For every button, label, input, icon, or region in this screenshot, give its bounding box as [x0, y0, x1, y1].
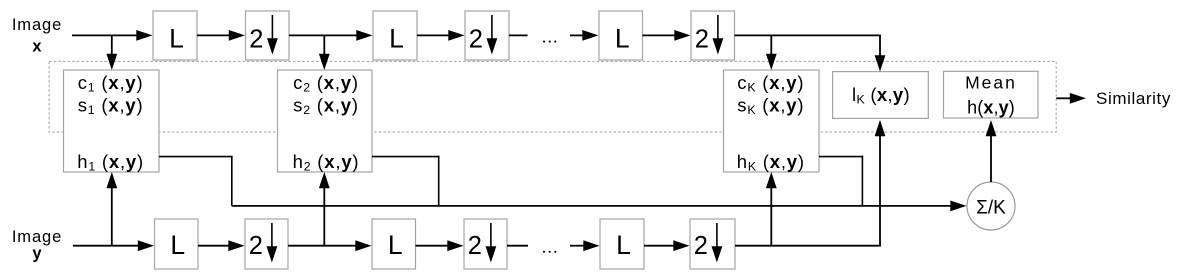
svg-text:sK (x,y): sK (x,y): [737, 95, 804, 118]
svg-text:h2 (x,y): h2 (x,y): [293, 151, 360, 174]
svg-text:x: x: [32, 38, 42, 56]
svg-text:L: L: [169, 24, 184, 54]
svg-text:Mean: Mean: [965, 73, 1017, 93]
svg-text:Σ/K: Σ/K: [976, 197, 1006, 218]
svg-text:2: 2: [249, 232, 263, 260]
svg-text:y: y: [32, 245, 42, 263]
svg-text:L: L: [389, 24, 404, 54]
svg-text:hK (x,y): hK (x,y): [737, 151, 805, 174]
svg-text:L: L: [388, 230, 403, 260]
svg-text:L: L: [615, 24, 630, 54]
svg-text:c2 (x,y): c2 (x,y): [293, 72, 359, 95]
svg-text:2: 2: [468, 232, 482, 260]
svg-text:2: 2: [249, 26, 263, 54]
svg-text:Image: Image: [12, 16, 62, 34]
svg-text:2: 2: [469, 26, 483, 54]
svg-text:h(x,y): h(x,y): [967, 98, 1015, 118]
svg-text:2: 2: [695, 26, 709, 54]
svg-text:L: L: [170, 230, 185, 260]
svg-text:s1 (x,y): s1 (x,y): [78, 95, 144, 118]
svg-text:cK (x,y): cK (x,y): [737, 72, 804, 95]
svg-text:2: 2: [694, 232, 708, 260]
svg-text:c1 (x,y): c1 (x,y): [78, 72, 144, 95]
svg-text:h1 (x,y): h1 (x,y): [77, 151, 144, 174]
svg-text:Similarity: Similarity: [1096, 89, 1171, 108]
svg-text:s2 (x,y): s2 (x,y): [293, 95, 359, 118]
svg-text:Image: Image: [12, 228, 62, 246]
svg-text:L: L: [616, 230, 631, 260]
